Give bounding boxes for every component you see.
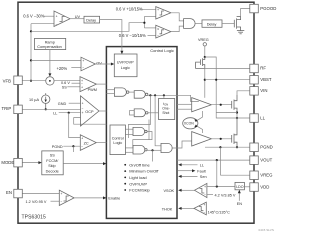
svg-text:LL: LL [200,164,204,168]
wire PGND stub [72,146,74,152]
pin RF [250,64,258,73]
svg-text:PGOOD: PGOOD [260,6,276,11]
svg-text:+: + [204,185,206,189]
wire PWM out [96,83,106,85]
wire LL stub [181,164,198,166]
gate AND pgood [184,19,196,29]
wire g4 stub b [125,133,133,135]
svg-text:+: + [82,111,84,115]
wire EN into LDO [238,192,240,201]
ellipse XCON [183,118,198,129]
transistor PGOOD pull-down [233,20,235,28]
comparator PG lower [156,25,171,38]
node d1 [149,94,151,96]
svg-text:VIN: VIN [260,88,267,93]
wire sense left [216,112,237,114]
wire GND input [69,102,81,104]
wire LL input [59,112,81,114]
wire PGND line [205,146,250,148]
svg-text:PGND: PGND [52,145,63,149]
svg-text:LL: LL [53,112,57,116]
arrow xcon up [194,119,198,122]
wire PGND input [63,145,80,147]
gate G5 nand [133,145,145,154]
wire vreg rail right/down [205,57,216,118]
node pgnd2 [219,146,221,148]
wire VOUT line [177,159,250,161]
pin VIN [250,87,258,96]
node rail-OV [30,59,32,61]
wire d1 down [128,95,150,138]
node PGND [72,145,74,147]
wire VBST line [205,79,250,81]
svg-text:EN: EN [237,202,243,206]
pin MODE [14,158,22,167]
svg-text:MODE: MODE [1,160,14,165]
svg-text:4.2 V/3.85 V: 4.2 V/3.85 V [215,194,236,198]
svg-text:145°C/135°C: 145°C/135°C [208,211,231,215]
svg-text:PWM: PWM [88,88,97,92]
svg-text:+: + [82,59,84,63]
wire lower ref [148,34,156,36]
svg-text:0.6 V −10/15%: 0.6 V −10/15% [119,33,146,38]
svg-text:+: + [157,8,159,12]
svg-text:Enable: Enable [108,197,120,201]
wire UV ref input [44,15,55,17]
wire Fault stub [178,170,192,172]
svg-text:TRIP: TRIP [2,106,12,111]
wire LDO to VDD [244,186,249,188]
node LL tap [68,112,70,114]
svg-text:Control Logic: Control Logic [150,48,174,53]
wire drv hi input b [177,108,192,110]
svg-text:−: − [82,107,84,111]
wire delay2 to PG fet gate [222,23,234,25]
svg-text:LL: LL [260,115,265,120]
wire g4 out [133,132,152,148]
wire UV out [70,18,84,20]
node rail-window [30,30,32,32]
node d2 [154,94,156,96]
box tON one-shot [159,99,175,120]
comparator OCP [81,96,100,126]
svg-text:+: + [81,85,83,89]
node gate hi [220,104,222,106]
svg-text:On/Off time: On/Off time [129,162,150,167]
node gate lo [220,138,222,140]
bullet 4 [124,183,126,185]
svg-text:EN: EN [6,190,12,195]
bullet list [124,162,159,192]
svg-text:Minimum On/Off: Minimum On/Off [129,169,159,174]
svg-text:Sen: Sen [200,175,207,179]
wire xcon links [198,111,203,120]
svg-text:One-: One- [162,107,170,111]
svg-text:Control: Control [112,136,124,140]
svg-text:Shot: Shot [162,111,169,115]
wire g3 out [148,112,159,114]
comparator EN [59,190,74,205]
wire OCP 4th input [74,118,107,125]
svg-text:Light load: Light load [129,175,146,180]
wire RF line [205,67,250,69]
wire VIN line [237,91,250,95]
svg-text:Delay: Delay [86,18,96,22]
wire OV + input [31,59,81,61]
bullet 5 [124,189,126,191]
wire g4 stub a [125,128,133,130]
wire PG lower out [171,26,184,32]
svg-text:+: + [56,15,58,19]
svg-text:VREG: VREG [260,173,273,178]
wire 0.6V input [72,82,81,84]
svg-text:Decode: Decode [46,169,59,173]
svg-text:−: − [203,211,205,215]
wire d3 into one-shot [163,95,165,98]
node vout [216,159,218,161]
wire delay1 to UVP/OVP [100,20,122,53]
bullet 3 [124,177,126,179]
svg-text:PGND: PGND [260,145,272,150]
pin EN [14,189,22,198]
box SS FCCM skip decode [42,151,63,175]
wire LL down to ZC [69,113,81,138]
svg-text:+: + [60,192,62,196]
svg-text:ZC: ZC [84,141,89,145]
svg-text:−: − [157,34,159,38]
wire ZC out [96,142,106,144]
wire rail to window comparators [31,23,144,32]
wire MODE pin to decode [22,162,40,164]
svg-text:VSOK: VSOK [164,189,175,193]
bullet 1 [124,164,126,166]
svg-text:VDD: VDD [260,184,269,189]
wire SS input [67,86,80,88]
gate G6 and [161,143,172,152]
wire UV fb input [31,23,54,25]
wire OV out arrow [95,63,112,65]
delay box 1 [84,16,100,23]
svg-text:+20%: +20% [57,66,68,71]
node rail-VFB [30,80,32,82]
wire vreg down [204,46,206,57]
svg-text:0.6 V +10/15%: 0.6 V +10/15% [116,6,143,11]
comparator PWM [80,77,96,92]
svg-text:1.2 V/0.95 V: 1.2 V/0.95 V [26,200,47,204]
svg-text:Compensation: Compensation [37,45,61,49]
svg-text:−: − [60,200,62,204]
transistor bootstrap PMOS [202,58,204,66]
wire pmos drain down [204,68,206,97]
wire VSOK - input [207,194,213,196]
node g5 [151,149,153,151]
wire OCP out [99,110,106,112]
box UVP/OVP logic [114,54,137,77]
driver buffer high [192,98,212,112]
svg-text:RF: RF [260,66,266,71]
wire hs source down [236,108,238,118]
svg-text:SS: SS [50,154,56,158]
svg-text:+: + [82,102,84,106]
node pgnd [236,146,238,148]
comparator UV [54,11,70,27]
VREG terminal [203,43,206,46]
svg-text:GND: GND [58,102,67,106]
driver buffer low [192,132,212,146]
gate G1 nand [114,88,126,96]
svg-text:Delay: Delay [207,22,217,26]
node d3 [163,94,165,96]
current source circle [45,93,47,95]
svg-text:OVP/UVP: OVP/UVP [129,181,147,186]
pin PGND [250,143,258,152]
wire VREG pin line [220,174,249,176]
svg-text:XCON: XCON [184,122,194,126]
box ramp compensation [35,38,66,49]
wire upper ref [139,8,156,10]
wire VFB vertical rail [30,24,32,81]
wire g1 in b [106,93,114,95]
svg-text:Fault: Fault [197,170,206,174]
wire PG fet drain to pin [241,9,250,17]
svg-text:Logic: Logic [121,66,130,70]
wire g3 stubs [130,109,135,111]
wire pgnd drop [219,147,221,175]
wire VSOK arrow [181,189,195,191]
svg-text:UVP/OVP: UVP/OVP [117,61,134,65]
svg-text:−: − [56,22,58,26]
wire g1 to g2 [129,91,134,93]
wire ramp to summer [49,50,51,75]
comparator input polarity marks [56,8,207,215]
gate G4 nand [133,127,145,135]
wire THOK arrow [181,207,194,209]
svg-text:THOK: THOK [162,207,173,211]
svg-text:Skip: Skip [48,164,55,168]
wire OV - input [71,66,81,68]
wire EN ref input [51,200,60,202]
ground PG fet [240,29,242,32]
box control logic small [110,125,125,155]
node ll [236,117,238,119]
transistor low-side [231,135,233,143]
node window tee [143,22,145,24]
wire drv hi out [211,104,231,106]
arrow xcon down [194,125,198,128]
wire Sen stub [181,175,198,177]
node trip [45,108,47,110]
svg-text:FCCM/Skip: FCCM/Skip [129,188,150,193]
node vbst cross [215,79,217,81]
svg-text:−: − [204,193,206,197]
wire VFB pin to summer [22,80,45,82]
svg-text:OV: OV [96,61,102,65]
chip outer border [18,2,254,223]
svg-text:SS: SS [62,85,68,89]
wire ton bottom tap [148,120,150,140]
svg-text:VOUT: VOUT [260,157,272,162]
svg-text:−: − [82,66,84,70]
gate G3 nand [134,109,145,117]
svg-text:+: + [81,136,83,140]
wire window fb tee [143,17,145,28]
wire g6 out to low driver [172,141,192,148]
gate G2 nand [134,91,145,99]
pin VREG [250,171,258,180]
wire g5 out [147,149,161,151]
pin VBST [250,76,258,85]
svg-text:0.6 V −30%: 0.6 V −30% [23,14,45,19]
node vbst [204,79,206,81]
node vsok [216,185,218,187]
wire drv hi input a [177,103,192,105]
svg-text:+: + [203,203,205,207]
pin VFB [14,76,22,85]
svg-text:VFB: VFB [3,79,11,84]
wire decode to box [63,163,104,165]
svg-text:Logic: Logic [113,141,122,145]
pin TRIP [14,105,22,114]
delay box 2 [202,20,222,27]
svg-text:10 µA: 10 µA [29,98,39,102]
svg-text:OCP: OCP [85,110,94,114]
arrow into UVP/OVP [120,51,123,54]
svg-text:VBST: VBST [260,77,272,82]
pin PGOOD [250,4,258,13]
pin VOUT [250,156,258,165]
summer node circle [46,77,54,85]
svg-text:Ramp: Ramp [45,40,55,44]
wire LL line [216,117,250,119]
svg-text:−: − [81,145,83,149]
svg-text:VREG: VREG [198,38,209,42]
wire summer to PWM [54,80,80,82]
comparator PG upper [156,7,171,19]
comparator OV [81,57,95,71]
pin VDD [250,183,258,192]
pin LL [250,114,258,123]
node vreg [204,56,206,58]
wire EN pin to comp [22,193,59,195]
node sense [236,111,238,113]
comparator ZC [80,135,96,151]
wire VSOK + input / LDO feed [207,186,235,188]
wire g2 out to driver [148,95,199,101]
arrow into summer [48,73,51,76]
wire TRIP pin to OCP [22,108,80,110]
wire g5 stub a [125,147,133,149]
wire AND out [195,23,202,25]
svg-text:0415 SLVS: 0415 SLVS [259,228,274,232]
svg-text:LDO: LDO [236,185,244,189]
control logic big box [106,47,177,219]
wire drv lo out [211,138,231,140]
wire d2 down [155,95,161,146]
bullet 2 [124,170,126,172]
wire vout down to vsok [216,160,218,186]
wire g5 stub b [125,151,133,153]
transistor high-side [231,101,233,109]
wire PG upper out [171,13,184,21]
svg-text:+: + [157,28,159,32]
wire g5 down [152,150,154,161]
svg-text:TPS63015: TPS63015 [22,214,47,220]
svg-text:FCCM/: FCCM/ [46,159,59,163]
wire g1 in a [106,89,114,91]
wire enable [74,197,104,199]
